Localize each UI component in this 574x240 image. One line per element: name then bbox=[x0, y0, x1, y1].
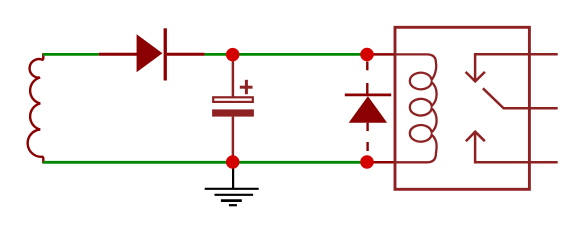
ground bar 4 bbox=[229, 204, 237, 206]
ground stem bbox=[232, 162, 234, 189]
junction dot B bbox=[360, 48, 374, 62]
diode D2 anode dashed link (bottom) bbox=[366, 123, 368, 151]
junction dot C bbox=[226, 155, 240, 169]
relay K1 coil bbox=[394, 54, 437, 162]
ground bar 3 bbox=[221, 199, 242, 202]
ground bar 1 bbox=[205, 188, 259, 190]
capacitor C1 plus sign bbox=[240, 80, 253, 94]
diode D1 anode lead bbox=[99, 53, 138, 56]
diode D1 cathode bar bbox=[164, 28, 167, 80]
capacitor C1 bottom plate bbox=[212, 109, 254, 116]
relay switch bottom arrowhead bbox=[466, 132, 485, 142]
diode D2 cathode dashed link (top) bbox=[366, 62, 368, 95]
relay K1 coil bottom pin wire bbox=[367, 161, 396, 164]
capacitor C1 top plate bbox=[213, 97, 253, 102]
relay K1 coil top pin wire bbox=[367, 53, 395, 56]
wire top-left (green) bbox=[43, 53, 99, 56]
relay switch top contact line bbox=[475, 54, 558, 80]
diode D1 cathode lead bbox=[167, 53, 205, 56]
relay K1 box bbox=[395, 27, 529, 189]
capacitor C1 top lead bbox=[232, 55, 235, 97]
junction dot A bbox=[226, 48, 240, 62]
wire bottom (green) bbox=[43, 161, 367, 164]
ground bar 2 bbox=[215, 194, 254, 196]
diode D2 triangle bbox=[349, 96, 387, 123]
relay switch bottom contact line bbox=[475, 132, 558, 162]
inductor L1 bbox=[28, 53, 44, 163]
diode D1 triangle bbox=[137, 34, 163, 72]
wire top-middle (green) bbox=[205, 53, 367, 56]
relay switch top arrowhead bbox=[466, 72, 485, 82]
diode D2 cathode bar bbox=[345, 94, 391, 97]
junction dot D bbox=[360, 155, 374, 169]
relay switch blade bbox=[483, 88, 558, 108]
capacitor C1 bottom lead bbox=[232, 117, 235, 163]
